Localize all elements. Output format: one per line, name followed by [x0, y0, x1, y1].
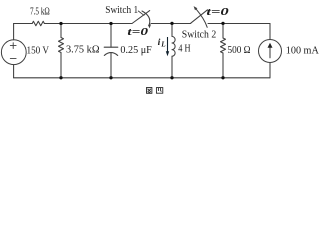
svg-text:t=0: t=0 [127, 26, 148, 38]
svg-text:Switch 1: Switch 1 [105, 5, 138, 16]
label leader Switch 1 [138, 11, 144, 15]
node dot bottom A [59, 76, 62, 79]
wire top segment R1 to switch1 [44, 23, 132, 25]
wire branch B bottom [110, 53, 112, 78]
wire branch C bottom [171, 56, 173, 78]
switch S1 arrowhead [148, 24, 151, 28]
wire branch A top [60, 24, 62, 38]
svg-text:500 Ω: 500 Ω [228, 45, 251, 56]
wire branch B top [110, 24, 112, 48]
caption glyph tu (figure) [147, 88, 152, 94]
svg-text:i: i [158, 37, 161, 48]
wire top segment switch2 to right corner [208, 23, 270, 25]
switch S2 arrowhead [194, 6, 198, 10]
wire top segment left of R1 [14, 23, 33, 25]
wire branch D top [222, 24, 224, 39]
svg-text:Switch 2: Switch 2 [182, 30, 216, 41]
resistor R2 3.75 kOhm zigzag [59, 38, 64, 53]
svg-text:4 H: 4 H [178, 44, 191, 55]
resistor R3 500 Ohm zigzag [221, 38, 226, 53]
voltage source V1 circle [1, 40, 26, 65]
switch S2 blade [191, 10, 208, 23]
svg-text:7.5 kΩ: 7.5 kΩ [30, 7, 50, 18]
svg-text:150 V: 150 V [27, 45, 50, 56]
inductor L1 4 H coil [172, 36, 175, 56]
wire top-left vertical [13, 24, 15, 40]
resistor R1 7.5 kOhm zigzag [32, 21, 44, 26]
svg-text:L: L [160, 41, 166, 49]
node dot bottom B [109, 76, 112, 79]
node dot bottom C [170, 76, 173, 79]
wire top-right vertical [269, 24, 271, 40]
inductor current iL arrow [167, 37, 169, 52]
switch S1 blade [132, 11, 150, 24]
node dot top D [221, 22, 224, 25]
current source I1 arrow shaft [269, 47, 271, 58]
svg-text:0.25 μF: 0.25 μF [120, 45, 151, 56]
caption glyph si (four) [156, 88, 162, 94]
capacitor C1 curved plate [104, 53, 117, 56]
node dot top C [170, 22, 173, 25]
wire branch D bottom [222, 53, 224, 78]
node dot bottom D [221, 76, 224, 79]
wire bottom rail [14, 77, 270, 79]
wire top segment switch1 to switch2 [151, 23, 191, 25]
wire bottom-left vertical [13, 65, 15, 78]
svg-text:3.75 kΩ: 3.75 kΩ [66, 44, 100, 55]
node dot top A [59, 22, 62, 25]
svg-text:100 mA: 100 mA [286, 45, 319, 56]
current source I1 circle [259, 40, 282, 63]
wire branch A bottom [60, 53, 62, 78]
switch S1 closing arc [142, 11, 150, 25]
switch S2 opening arc [196, 9, 207, 27]
wire branch C top [171, 24, 173, 37]
node dot top B [109, 22, 112, 25]
wire bottom-right vertical [269, 63, 271, 78]
voltage source plus sign [10, 43, 16, 49]
current source I1 arrowhead [268, 43, 273, 48]
svg-text:t=0: t=0 [206, 6, 229, 18]
capacitor C1 top plate [104, 46, 118, 48]
voltage source minus sign [10, 58, 16, 60]
